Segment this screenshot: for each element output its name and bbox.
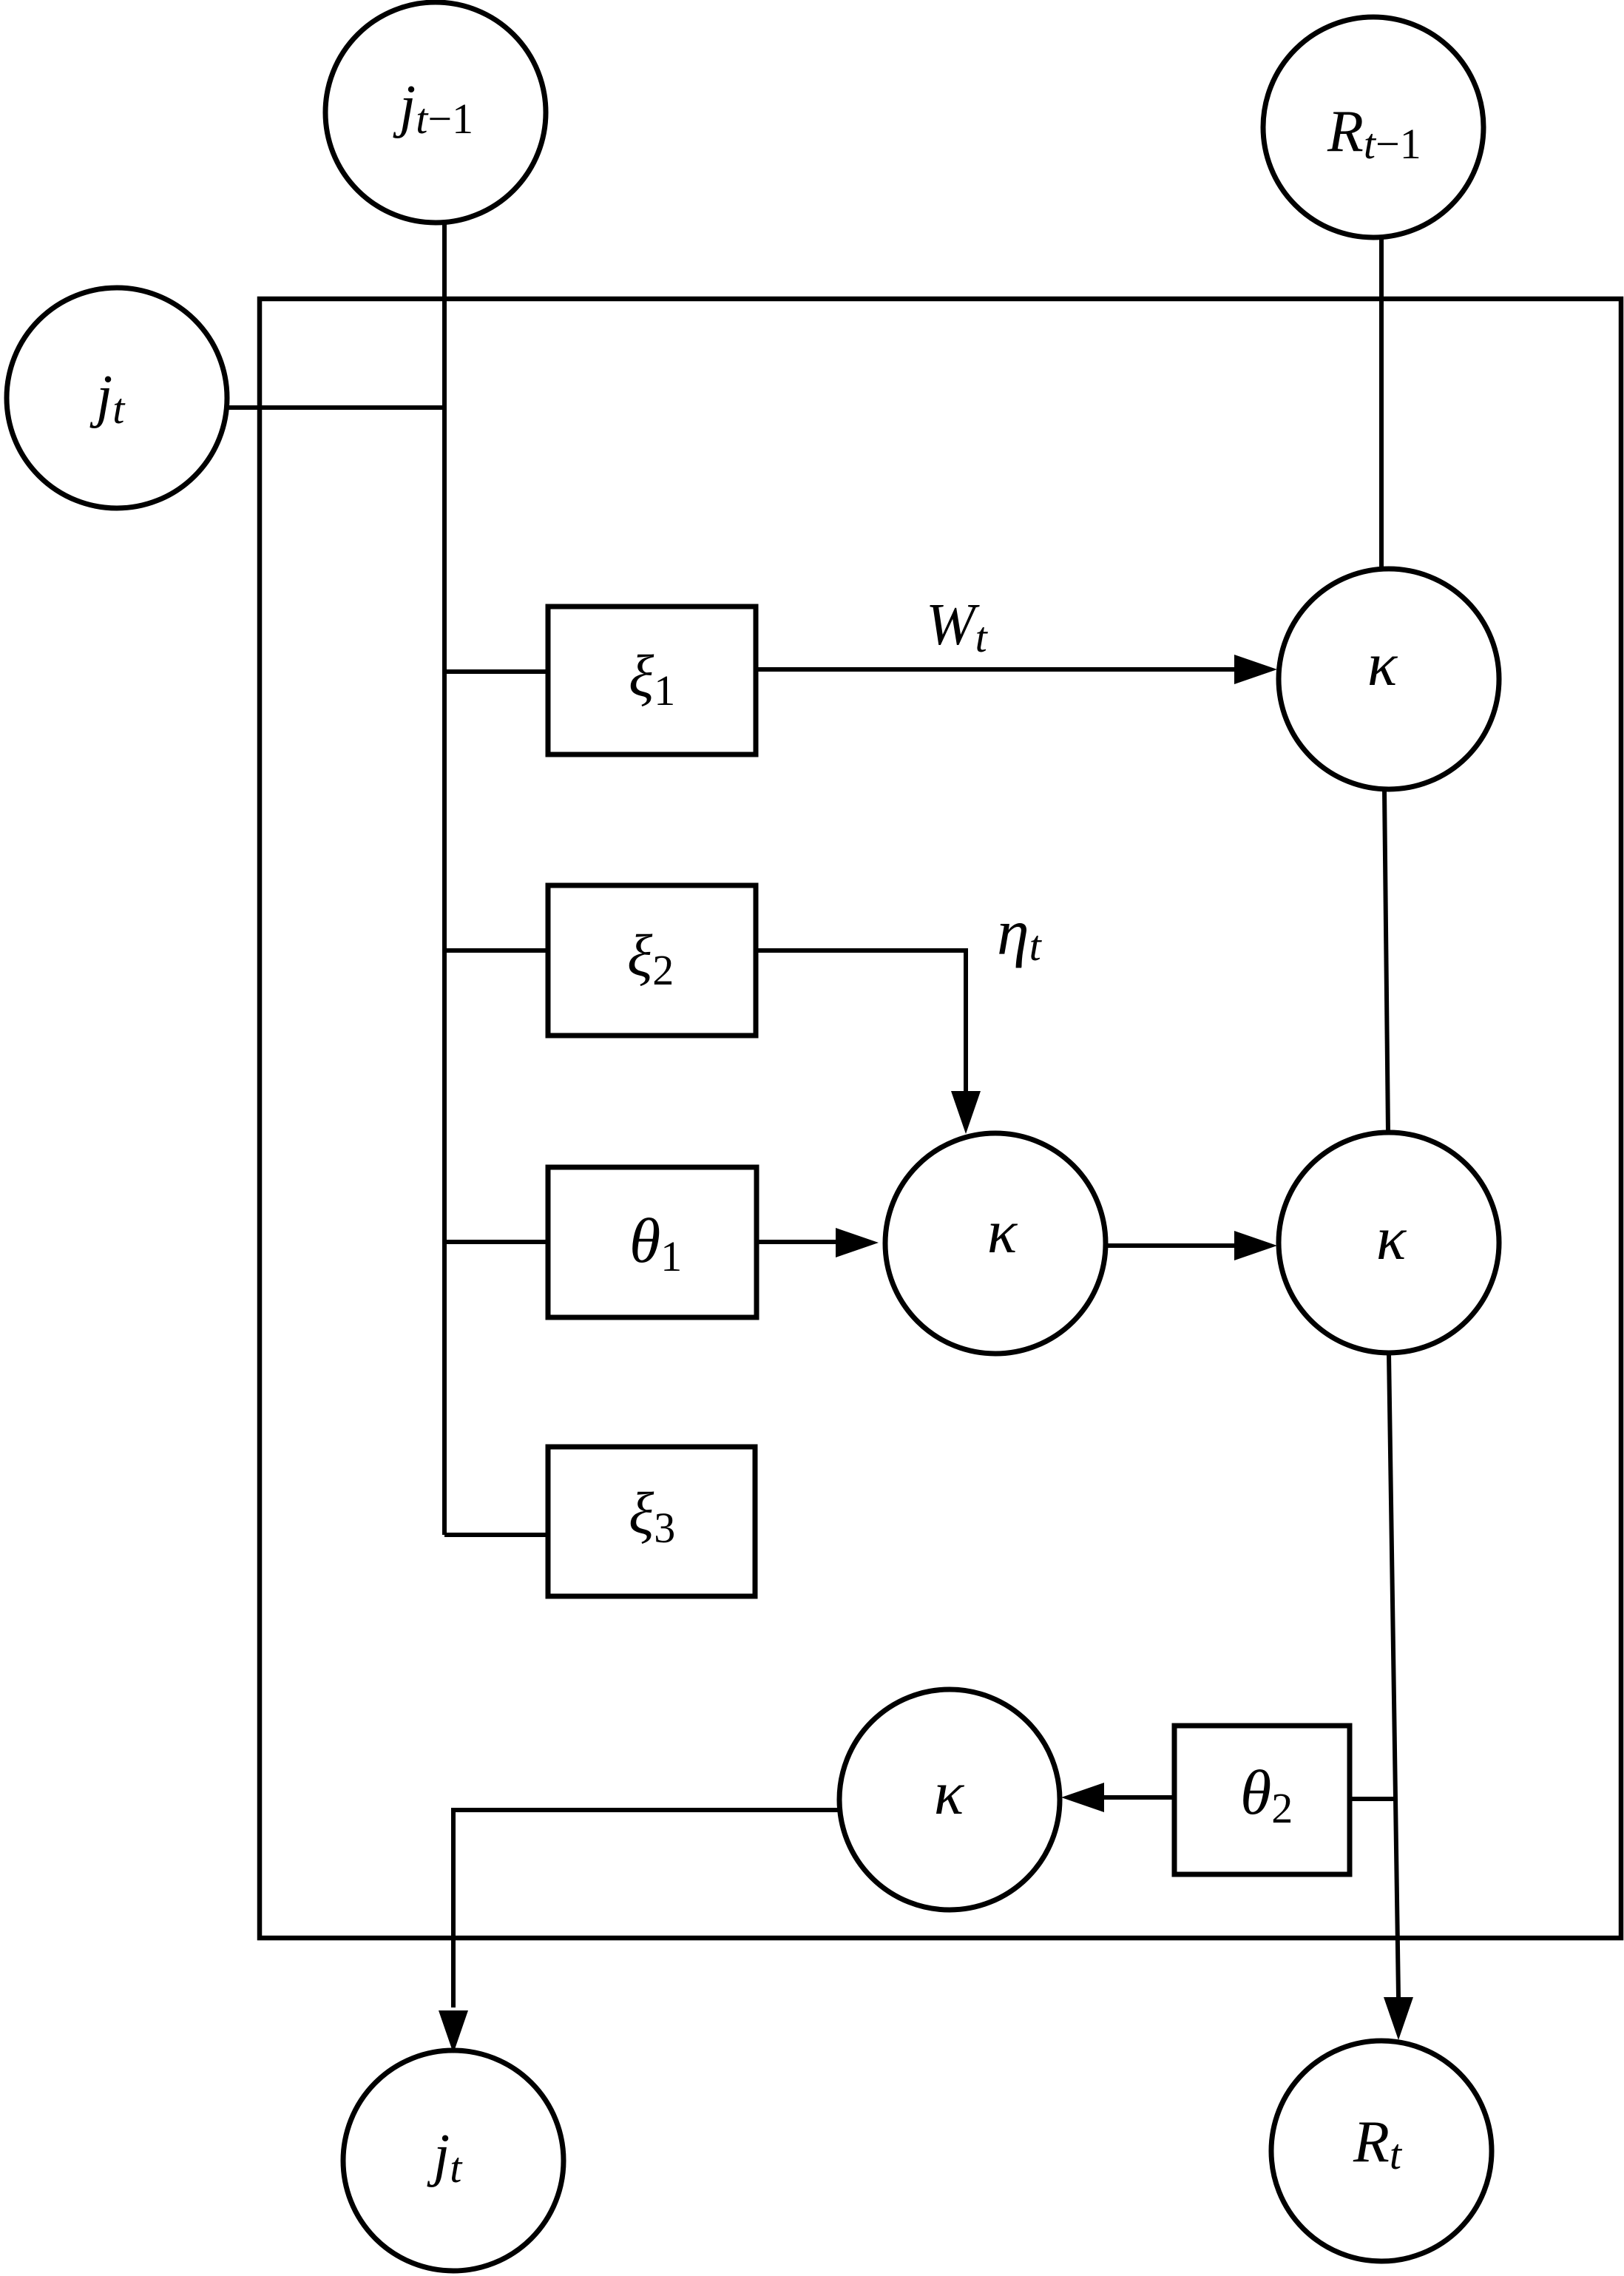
svg-text:κ: κ (1376, 1204, 1407, 1273)
svg-text:κ: κ (934, 1759, 965, 1828)
svg-text:κ: κ (1367, 630, 1398, 699)
svg-text:κ: κ (987, 1198, 1018, 1266)
